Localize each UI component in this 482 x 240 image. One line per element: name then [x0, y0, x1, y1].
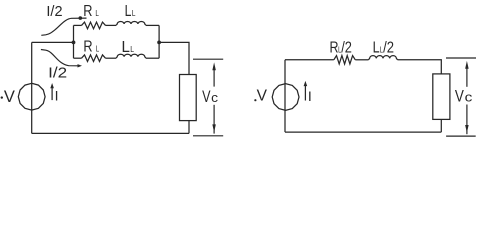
svg-text:V: V [4, 88, 15, 106]
svg-text:V: V [257, 88, 268, 105]
svg-text:V: V [202, 87, 211, 106]
svg-text:I/2: I/2 [46, 4, 62, 20]
svg-text:R: R [83, 3, 92, 20]
svg-text:L: L [125, 3, 132, 20]
svg-text:L: L [122, 39, 130, 56]
svg-text:L: L [130, 45, 134, 54]
svg-text:I: I [308, 88, 312, 104]
svg-text:L: L [132, 9, 136, 18]
svg-text:I: I [55, 87, 59, 103]
svg-text:/2: /2 [383, 40, 394, 57]
svg-text:L: L [96, 45, 100, 54]
svg-text:L: L [95, 9, 99, 18]
svg-text:c: c [211, 90, 218, 105]
svg-text:c: c [465, 90, 473, 105]
svg-text:I/2: I/2 [48, 64, 67, 81]
svg-text:V: V [455, 87, 465, 106]
svg-text:L: L [373, 40, 380, 57]
svg-text:R: R [83, 39, 92, 56]
svg-text:/2: /2 [341, 40, 352, 57]
